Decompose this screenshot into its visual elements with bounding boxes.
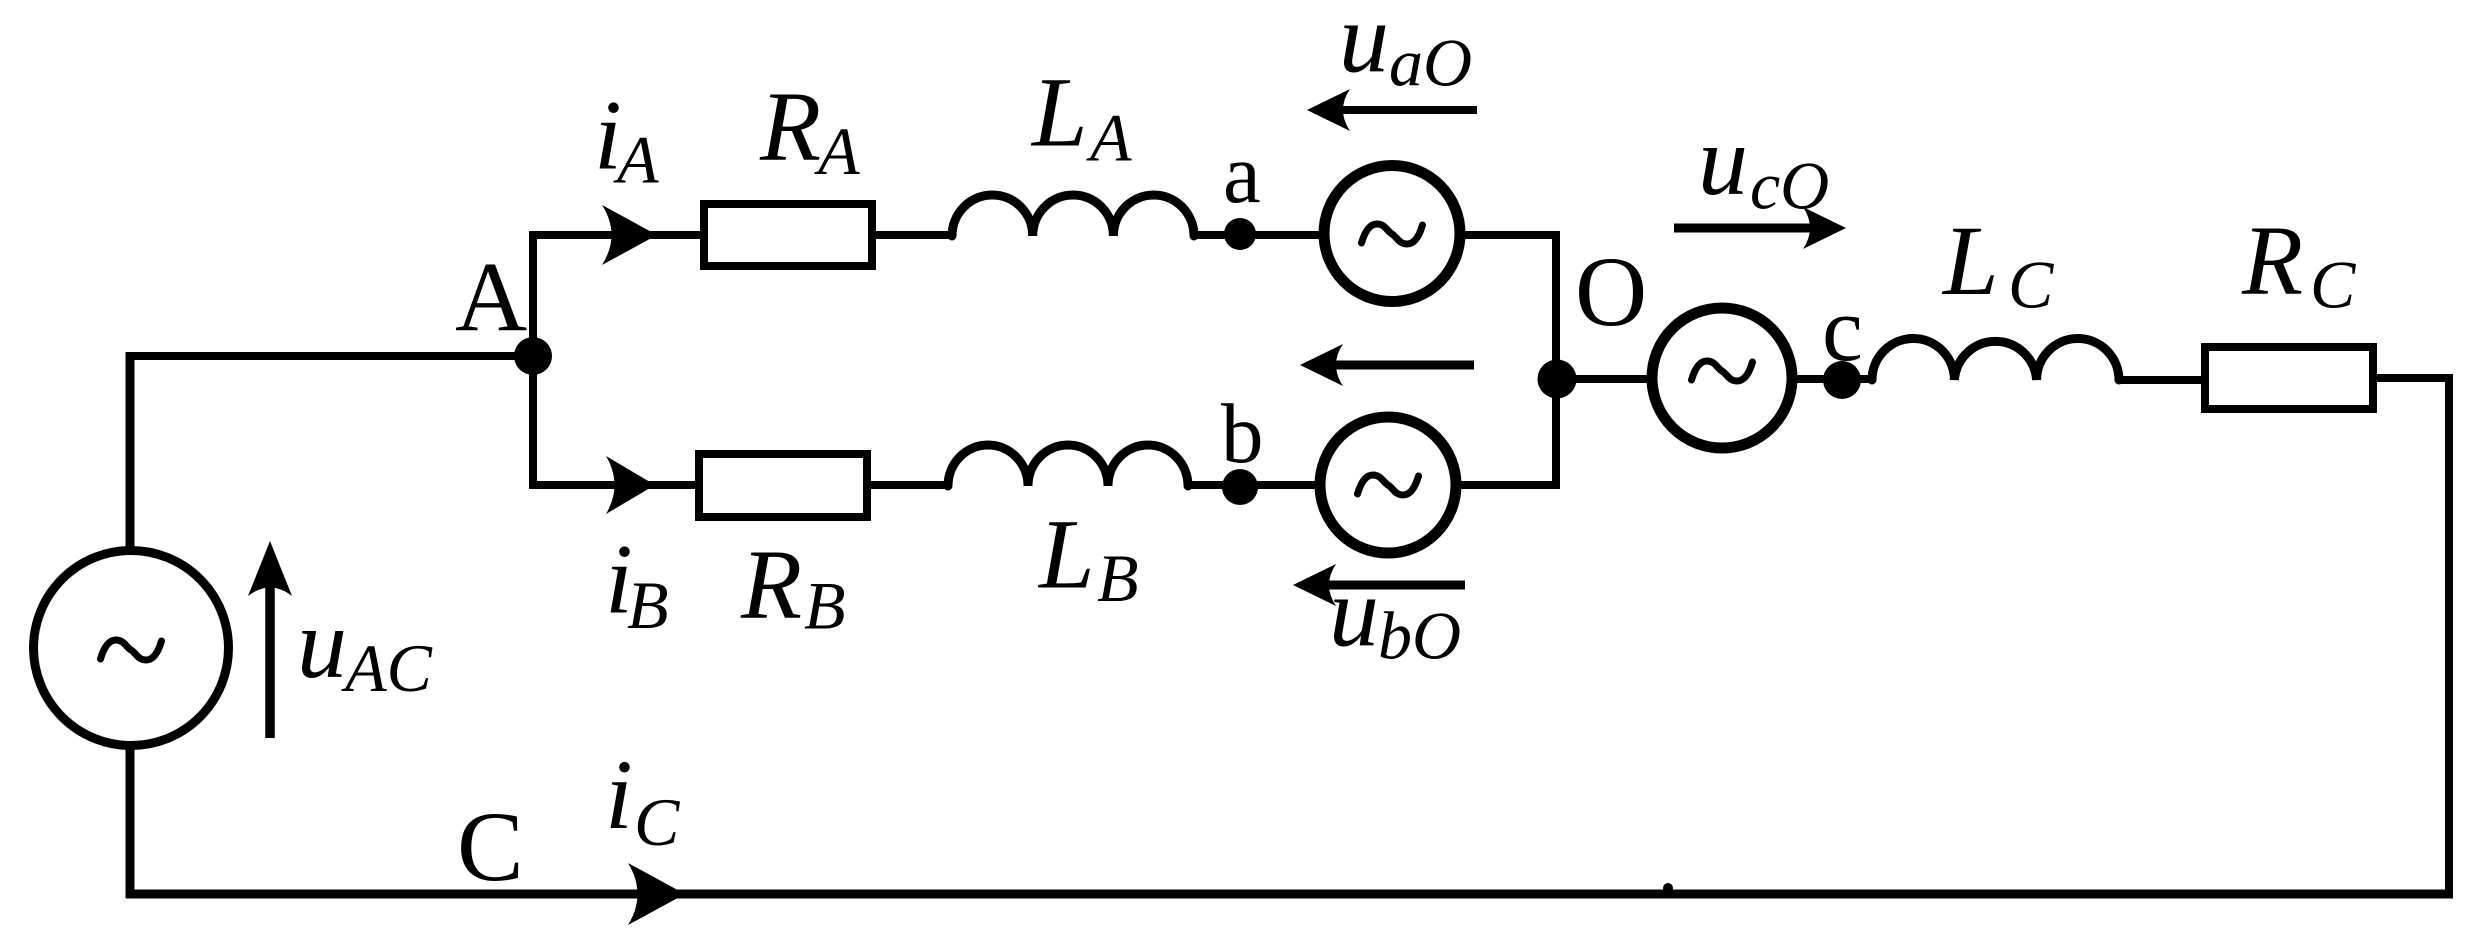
label RA (759, 71, 860, 189)
arrow uAC (248, 541, 292, 738)
wire left vertical lower (126, 749, 135, 898)
label ubO (1329, 557, 1461, 674)
svg-text:A: A (1086, 99, 1132, 175)
source c (1652, 308, 1792, 448)
resistor RC (2205, 347, 2373, 409)
svg-text:A: A (814, 113, 860, 189)
node c dot (1823, 361, 1861, 399)
svg-text:A: A (613, 122, 659, 198)
svg-text:O: O (1575, 236, 1647, 347)
svg-text:C: C (634, 784, 680, 860)
resistor RA (704, 204, 872, 266)
svg-text:B: B (804, 568, 846, 644)
label RC (2241, 204, 2356, 322)
svg-text:R: R (759, 71, 821, 182)
label LC (1941, 205, 2054, 322)
wire corner to source b (1461, 481, 1560, 489)
wire left vertical upper (126, 352, 135, 547)
svg-text:u: u (297, 588, 347, 699)
arrow uaO (1307, 89, 1477, 131)
wire right vertical (2445, 378, 2453, 894)
svg-text:L: L (1037, 499, 1095, 610)
wire RC to right vertical (2377, 374, 2453, 382)
svg-text:C: C (2008, 246, 2054, 322)
label iC (605, 739, 680, 860)
wire LA to source a (1194, 231, 1319, 239)
resistor RB (699, 454, 867, 517)
svg-text:bO: bO (1378, 598, 1461, 674)
node A dot (514, 337, 552, 375)
svg-text:u: u (1339, 0, 1389, 94)
label ucO (1698, 105, 1829, 224)
node O dot (1538, 360, 1577, 399)
svg-text:C: C (457, 791, 524, 902)
label uaO (1339, 0, 1472, 101)
wire source c to LC (1792, 375, 1872, 383)
svg-text:B: B (1097, 540, 1139, 616)
wire LC to RC (2119, 376, 2205, 384)
wire LB to RB (867, 481, 948, 489)
inductor LB (948, 445, 1188, 486)
label uAC (297, 588, 433, 706)
svg-text:A: A (455, 241, 527, 352)
wire A to left edge (130, 352, 533, 360)
AC source uAC (34, 551, 229, 746)
wire O to source c (1557, 375, 1652, 383)
svg-text:u: u (1698, 105, 1748, 216)
svg-text:b: b (1221, 387, 1264, 481)
junction speck on bottom wire (1663, 883, 1673, 893)
svg-text:R: R (2241, 204, 2303, 315)
inductor LC (1872, 338, 2119, 380)
label LA (1030, 57, 1132, 176)
source a (1324, 166, 1460, 302)
svg-text:a: a (1223, 127, 1261, 221)
wire top branch left (529, 231, 704, 239)
source b (1320, 417, 1456, 553)
svg-text:C: C (2310, 246, 2356, 322)
arrow iB (606, 456, 655, 514)
arrow iA (602, 205, 657, 265)
arrow middle unlabeled (1300, 344, 1474, 386)
wire middle vertical (1552, 231, 1560, 489)
wire source a to corner (1465, 231, 1560, 239)
node b dot (1222, 469, 1258, 505)
svg-text:R: R (740, 529, 802, 640)
label RB (740, 529, 846, 644)
wire RA to LA (872, 231, 952, 239)
wire bottom (126, 890, 2453, 899)
svg-text:L: L (1030, 57, 1088, 168)
wire A vertical (529, 231, 537, 489)
arrow ubO (1293, 564, 1465, 606)
wire source b to LB (1188, 481, 1315, 489)
svg-text:cO: cO (1750, 148, 1829, 224)
svg-text:B: B (627, 567, 669, 643)
svg-text:L: L (1941, 205, 1999, 316)
wire RB to corner (529, 481, 699, 489)
label iB (605, 523, 669, 643)
arrow iC (628, 863, 685, 925)
svg-text:i: i (605, 739, 633, 850)
label LB (1037, 499, 1139, 616)
label iA (594, 80, 659, 198)
node a dot (1224, 218, 1256, 250)
svg-text:u: u (1329, 557, 1379, 668)
svg-text:AC: AC (341, 630, 433, 706)
svg-text:aO: aO (1389, 25, 1472, 101)
svg-text:c: c (1822, 278, 1863, 380)
arrow ucO (1674, 207, 1846, 249)
inductor LA (952, 195, 1194, 236)
